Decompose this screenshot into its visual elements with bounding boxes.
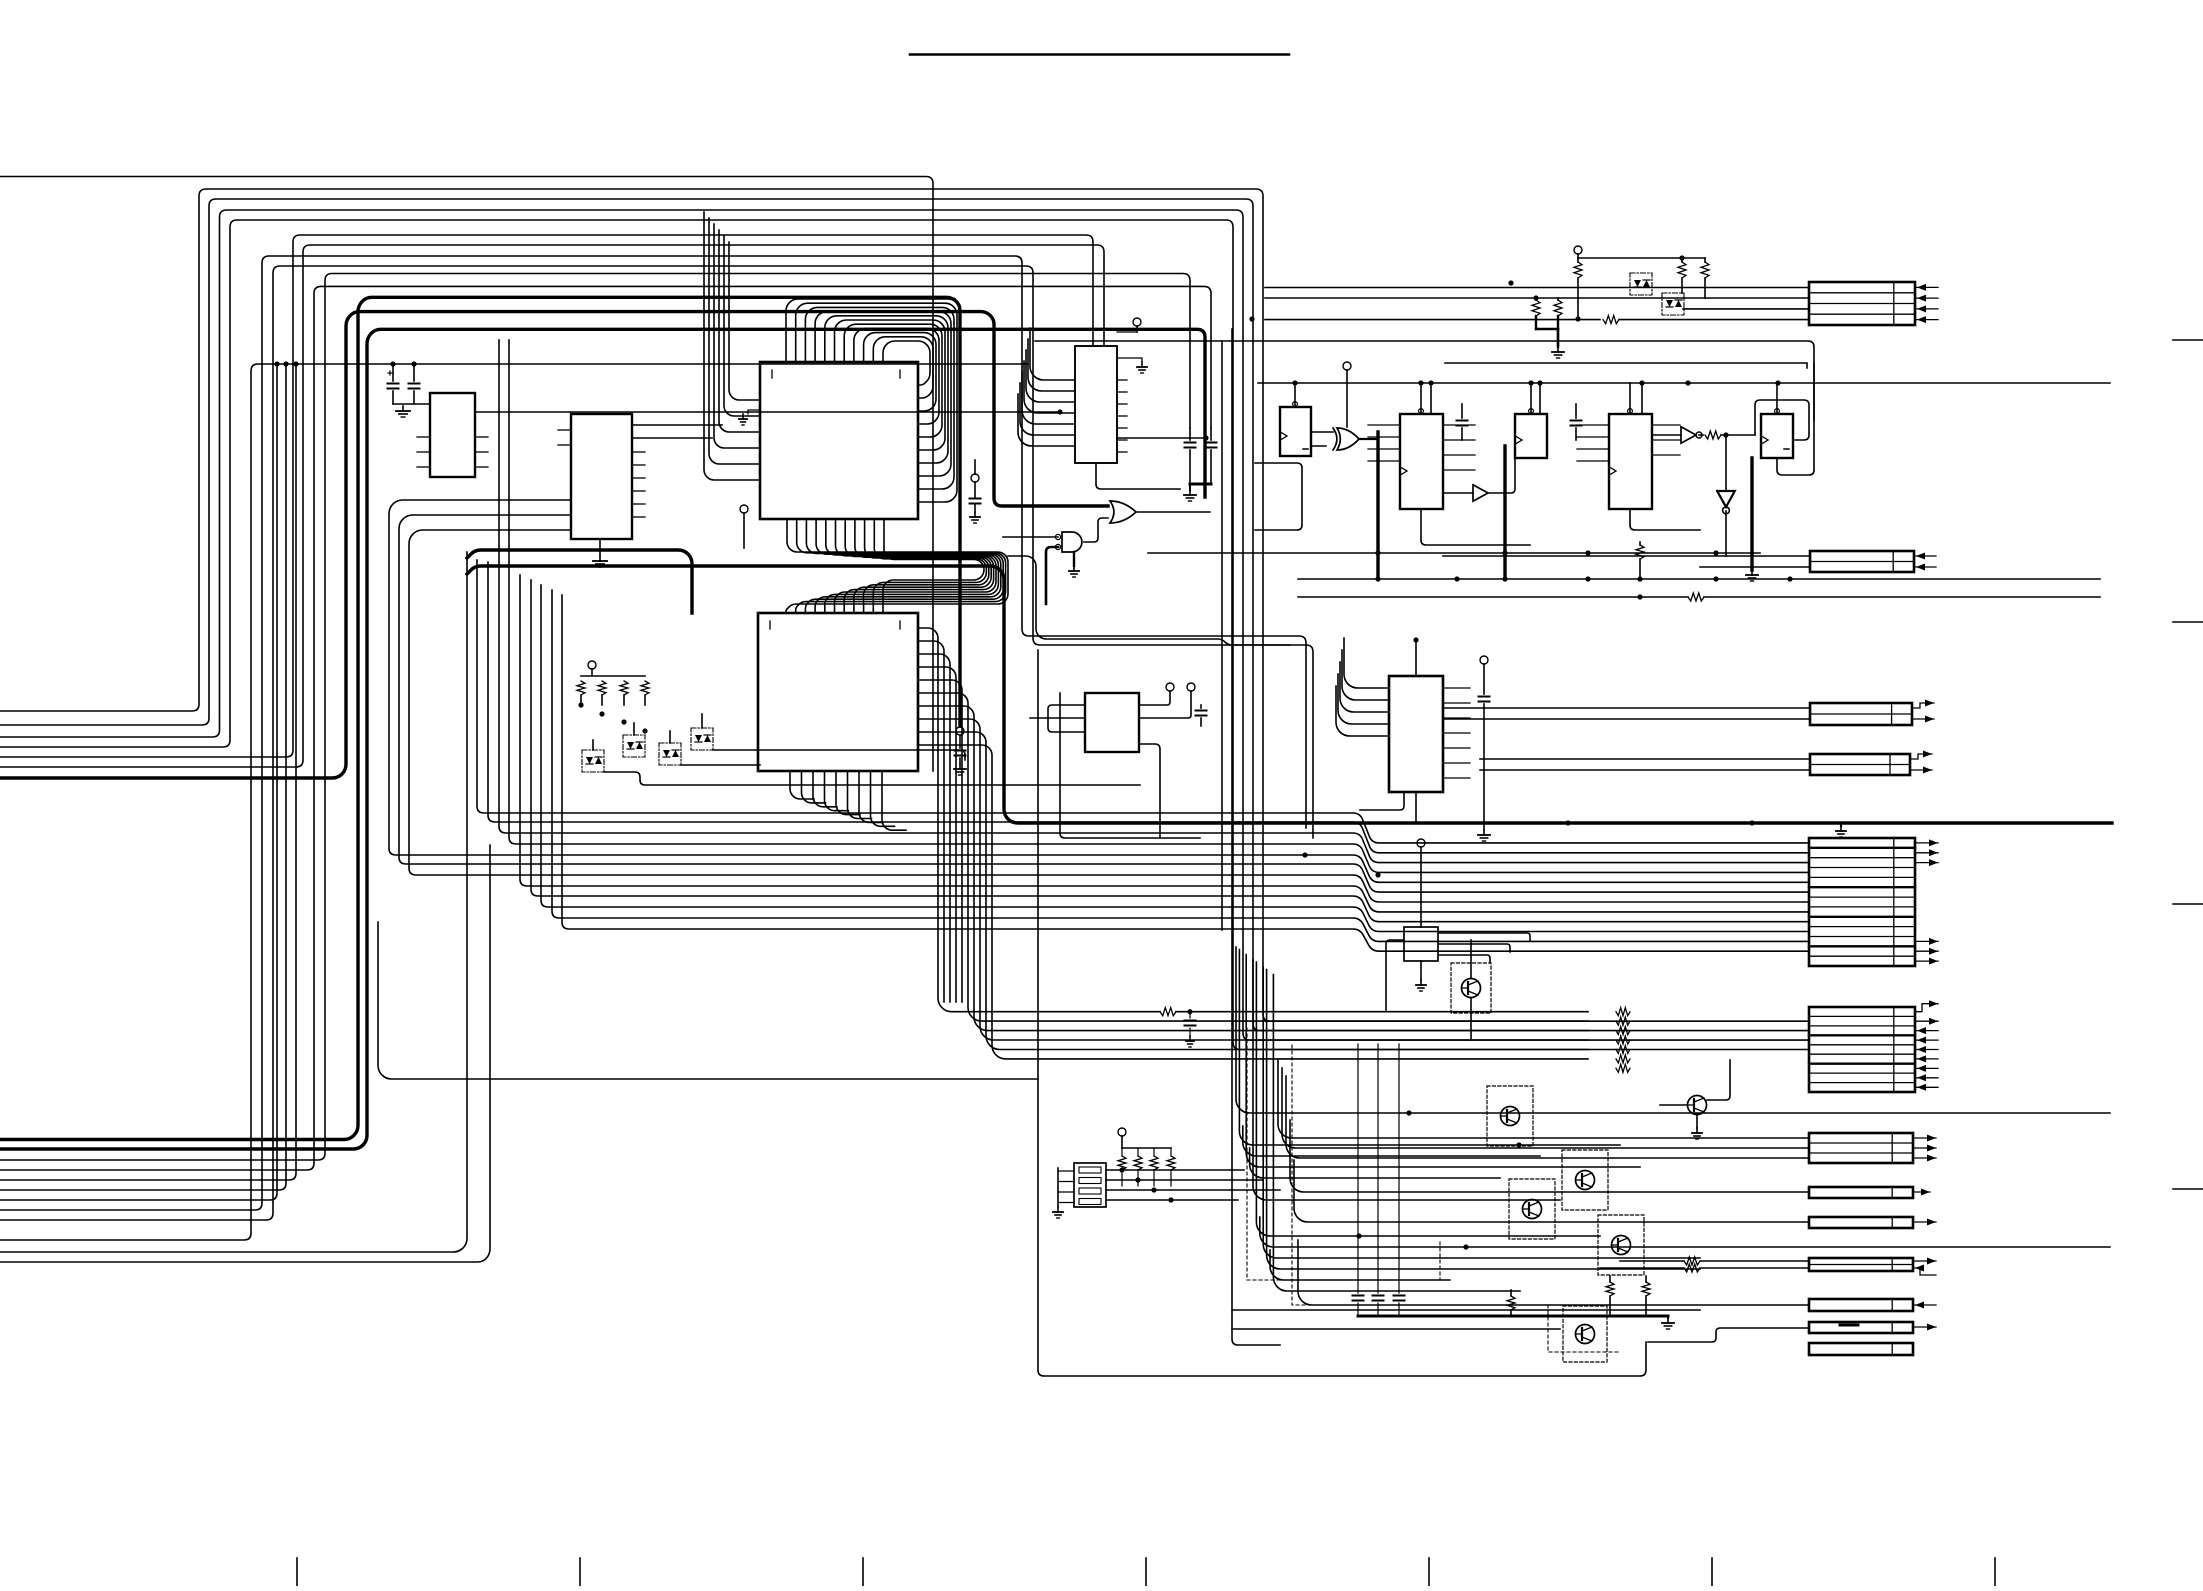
wire CN7 exits (1913, 1135, 1936, 1162)
wire rail-363 (1445, 363, 1807, 368)
ground C34 (1184, 484, 1196, 501)
wire bot rails (1236, 947, 2110, 1291)
wire rail-1329 (1232, 1328, 1560, 1330)
junction S7 (274, 361, 279, 366)
transistor Q23 (1598, 1215, 1644, 1275)
wire VD1222 (1221, 341, 1223, 930)
fold mark right 4 (2173, 1188, 2203, 1190)
capacitor C5 (954, 727, 966, 775)
wire VD1232 (1231, 329, 1233, 920)
wire CN2 feeds (1443, 556, 1810, 567)
capacitor C6 (1457, 404, 1468, 440)
capacitor C13 (1185, 1009, 1196, 1047)
wire U15 top (1775, 383, 1780, 414)
capacitor C9 (1478, 656, 1490, 841)
wire rail-530b (1148, 552, 1760, 554)
resistor R13 (1554, 298, 1562, 345)
wire U15 loop (1755, 400, 1809, 440)
wire band B1-12 (389, 340, 1809, 951)
capacitor C10-12 (1353, 1044, 1405, 1316)
junction R364-b (411, 361, 416, 366)
transistor Q10 (1630, 273, 1652, 295)
wire RN1 rail (581, 675, 645, 677)
connector CN5 (1809, 838, 1915, 966)
transistor Q21 (1562, 1150, 1608, 1210)
pullup U3bl (740, 505, 748, 548)
IC U10 (1400, 414, 1443, 509)
IC U17 (1085, 693, 1139, 752)
FF U12 (1515, 414, 1547, 458)
junction rails-bot (1356, 1110, 1521, 1249)
inverter U16 (1717, 435, 1735, 514)
junction S5 (293, 361, 298, 366)
junction rail-597 (1637, 594, 1642, 599)
wire bus stair S4 (0, 266, 1313, 1220)
wire U5 out2 (1096, 463, 1180, 489)
resistor R11 (1574, 262, 1582, 319)
wire U16 out (1725, 511, 1727, 556)
wire C12 tie (393, 403, 430, 405)
wire net-L1262 (0, 845, 490, 1262)
pullup XR (1343, 362, 1351, 427)
connector CN4 (1810, 754, 1910, 775)
wire RN3 rail (1122, 1147, 1171, 1149)
frame dotted1 (1247, 1028, 1440, 1280)
wire rail-579 (1298, 578, 2100, 580)
wire rail-341 (1035, 341, 1814, 420)
wire U2 out1 (632, 424, 722, 426)
gate U6 AND (1055, 518, 1108, 552)
wire U13 pins-l (1577, 425, 1609, 461)
wire U1 pins-r (475, 437, 488, 467)
wire bus nest L1 (0, 189, 1809, 1021)
wire CN3 exits (1912, 700, 1934, 723)
resistor R15 (1701, 258, 1709, 298)
wire bus stair S6 (0, 364, 286, 1190)
wire RN2 l (1058, 1171, 1074, 1203)
pullup U17a (1139, 683, 1174, 705)
wire U19 top (1417, 839, 1425, 927)
RN2 box (1074, 1163, 1106, 1207)
junction rail-530b (1375, 550, 1718, 555)
ground tie (1662, 1316, 1674, 1329)
wire U19 steps (1438, 933, 1530, 962)
fold mark right 1 (2173, 339, 2203, 341)
connector CN13 (1809, 1343, 1913, 1355)
ground C12 (396, 406, 410, 417)
junction rail-579 (1375, 576, 1792, 581)
wire bold frameA (467, 550, 692, 613)
fold mark right 3 (2173, 903, 2203, 905)
connector CN12 (1809, 1322, 1913, 1333)
resistor R21 (1606, 1276, 1614, 1316)
transistor Q1 (582, 740, 604, 772)
wire U15 out (1777, 363, 1814, 475)
ground RN2 (1053, 1168, 1063, 1218)
capacitor C5b (970, 460, 981, 523)
wire U19 gnd (1416, 961, 1426, 991)
ground U6 (1069, 552, 1079, 577)
wire TR rail283 (1265, 287, 1809, 289)
ground VB1752 (1746, 570, 1758, 581)
buffer U11 (1443, 458, 1515, 501)
connector CN6 (1809, 1007, 1915, 1092)
gate U9 XOR (1311, 428, 1359, 450)
U4 pin marks (770, 621, 900, 629)
connector CN2 (1810, 551, 1914, 572)
wire CN34 feeds (1443, 708, 1810, 770)
wire bus nest L4 (0, 220, 1809, 1050)
wire CN12 feed (1648, 1328, 1809, 1342)
transistor Q2 (623, 723, 645, 757)
junction H823-a (1565, 820, 1570, 825)
wire U1 out (475, 409, 1063, 414)
wire outline (1038, 650, 1646, 1376)
fold mark right 2 (2173, 621, 2203, 623)
wire CN5 exits (1915, 839, 1938, 964)
resistor RN1 (577, 681, 649, 705)
wire CN12 exit (1913, 1324, 1936, 1331)
connector CN3 (1810, 703, 1912, 725)
wire U8 top (1293, 383, 1298, 407)
bold VB1378 (1376, 432, 1379, 579)
bold VB1752 (1750, 458, 1753, 570)
junction U14o (1723, 432, 1728, 437)
resistor R16 (1705, 431, 1755, 439)
IC U13 (1609, 414, 1652, 509)
resistor R14 (1678, 258, 1686, 293)
pullup U5 (1117, 318, 1141, 332)
wire bold frameB (467, 566, 2112, 823)
connector CN8 (1809, 1187, 1913, 1198)
wire TR rail319 (1265, 316, 1809, 324)
wire net-A0 top (0, 177, 933, 772)
pullup RN3 (1118, 1128, 1126, 1148)
wire bus stair S7 (0, 364, 277, 1200)
IC U19 (1404, 927, 1438, 961)
ticks bottom (297, 1558, 1995, 1586)
FF U8 (1280, 407, 1311, 456)
wire U18 pins-r (1443, 688, 1470, 778)
wire CN11 feed (1298, 1240, 1809, 1305)
wire bold BW1 (0, 312, 1108, 778)
connector CN11 (1809, 1299, 1913, 1311)
transistor Q24 (1563, 1306, 1607, 1362)
resistor R22 (1642, 1276, 1650, 1316)
wire RN2 out (1106, 1170, 1280, 1200)
wire U18 feeder (1008, 556, 1290, 645)
wire CN8 exit (1913, 1189, 1930, 1196)
wire AND-in (1003, 537, 1058, 604)
wire U17 frame (1060, 693, 1200, 838)
wire rail-463 (1255, 463, 1302, 530)
junction S6 (283, 361, 288, 366)
capacitor C7 (1571, 404, 1582, 440)
pullup RN1 (588, 661, 596, 676)
transistor Q22 (1509, 1179, 1555, 1239)
wire C34 tie (1190, 483, 1211, 486)
wire Q26 link (1470, 940, 1472, 1040)
wire U18 pins-l (1336, 638, 1389, 736)
wire U2 pins-l (558, 430, 571, 445)
wire CN7 feeds (1278, 1060, 1809, 1158)
transistor Q3 (659, 731, 681, 765)
junction H823-b (1749, 820, 1754, 825)
wire TR rail308 (1683, 308, 1809, 310)
wire U9 out (1359, 438, 1376, 440)
wire U13 pins-r (1652, 425, 1680, 455)
wire rail-1310 (1232, 1309, 1700, 1311)
wire U12 top (1529, 383, 1540, 414)
wire CN9 feed (1294, 1160, 1809, 1222)
wire TR rail298 (1265, 297, 1809, 299)
junction RN1 (578, 702, 647, 733)
capacitor C1 (388, 364, 399, 404)
ground TR (1552, 347, 1564, 358)
wire U3 pins-bot ribbon (786, 519, 1008, 613)
wire U3 pins-top-right (786, 299, 960, 568)
bold VB1505 (1503, 446, 1506, 579)
IC U5 (1075, 346, 1117, 463)
wire U2 gnd (593, 539, 607, 567)
wire bus nest L2 (0, 199, 1809, 1031)
wire U17 l (1030, 705, 1085, 732)
wire CN4 exits (1910, 751, 1932, 774)
ground U3l (739, 410, 760, 425)
wire bold tie1316 (1358, 1315, 1668, 1318)
junction R364-a (390, 361, 395, 366)
wire net-R364 (0, 364, 1028, 1240)
junction rail-320 (1249, 316, 1297, 385)
IC U4 (758, 613, 918, 771)
frame dotted2 (1292, 1045, 1620, 1352)
connector CN10 (1809, 1258, 1913, 1271)
wire U10 pins-l (1368, 425, 1400, 461)
wire bus nest L5 (0, 235, 1093, 757)
wire bus stair S3 (0, 256, 1306, 1210)
transistor Q26 (1451, 963, 1491, 1013)
wire rail-597 (1298, 593, 2100, 601)
junction U5o (1203, 435, 1208, 440)
wire U5 pins-r (1117, 380, 1127, 452)
wire U3 pins-l (704, 212, 760, 480)
capacitor C2 (409, 364, 420, 404)
wire U13 bot (1630, 509, 1700, 530)
connector CN7 (1809, 1133, 1913, 1163)
resistor RN3 (1118, 1148, 1175, 1186)
IC U18 (1389, 676, 1443, 792)
wire U10 bot (1421, 509, 1530, 545)
wire U18 top (1413, 637, 1418, 676)
wire U2 pins-r (632, 452, 645, 517)
ground U5 (1117, 358, 1147, 373)
wire Q25 link (1660, 1060, 1730, 1105)
transistor Q20 (1487, 1086, 1533, 1146)
wire U2 out2 (632, 437, 712, 439)
wire net-V467 (0, 552, 467, 1252)
U3 pin1 mark (772, 370, 900, 378)
wire U10 pins-r (1443, 425, 1475, 470)
wire CN11 exit (1913, 1302, 1936, 1309)
IC U3 (760, 362, 918, 519)
gate U7 OR (1110, 501, 1210, 523)
wire CN6 exits (1915, 1000, 1938, 1091)
wire TR gndlink (1536, 329, 1558, 347)
wire U4 pins-r (918, 628, 1588, 1059)
capacitor C8 (1196, 705, 1207, 726)
junction TR (1508, 280, 1580, 321)
capacitor C3 (1185, 428, 1196, 484)
wire U10 top (1419, 383, 1431, 414)
wire U13 top (1628, 383, 1642, 414)
ground G823 (1836, 823, 1846, 837)
wire CN1 exits (1915, 284, 1938, 323)
wire bus stair S1 (0, 274, 1190, 1161)
capacitor C4 (1206, 428, 1217, 484)
wire TR vcc (1578, 257, 1705, 259)
resistor lower-band (1616, 1008, 1630, 1073)
wire rail-383 (1258, 382, 2110, 384)
wire CN2 exits (1914, 553, 1936, 571)
wire bus nest L3 (0, 210, 1809, 1040)
resistor R20 (1507, 1290, 1515, 1316)
wire net-H1079 (378, 922, 1038, 1079)
wire U5 pins-l (1018, 328, 1075, 446)
wire outline2 (1232, 920, 1280, 1345)
transistor Q25 (1688, 1096, 1707, 1140)
IC U2 (571, 414, 632, 539)
IC U1 (430, 393, 475, 477)
resistor R17 (1636, 542, 1644, 579)
transistor Q11 (1662, 293, 1684, 315)
junction RN3 (1119, 1167, 1173, 1202)
junction band (1302, 852, 1380, 877)
wire bus stair S2 (0, 286, 1211, 1170)
title underline (910, 53, 1289, 56)
connector CN9 (1809, 1217, 1913, 1228)
junction TRv (1679, 255, 1684, 260)
wire U1 pins-l (417, 437, 430, 467)
wire U18 bot (1360, 792, 1416, 823)
wire bus stair S5 (0, 364, 296, 1180)
wire CN9 exit (1913, 1219, 1936, 1226)
wire bus nest L6 (0, 245, 1104, 767)
wire bold BW2 (0, 297, 960, 1139)
wire bold BW3 (0, 329, 1205, 1149)
FF U15 (1761, 414, 1793, 458)
wire CN10 feeds (1600, 1257, 1809, 1272)
wire CN10 exits (1913, 1258, 1936, 1276)
pullup U17b (1139, 683, 1195, 718)
buffer U14 (1652, 427, 1703, 443)
wire U5 out1 (1117, 437, 1206, 439)
pullup VR1 (1574, 246, 1582, 262)
connector CN1 (1809, 282, 1915, 325)
junction rail-383 (1418, 380, 1780, 385)
wire U19 l (1386, 940, 1404, 1010)
resistor R12 (1532, 298, 1540, 329)
transistor Q4 (691, 714, 713, 750)
wire CN8 feed (1290, 1120, 1809, 1192)
wire U4 pins-bot (790, 771, 906, 830)
wire Q out (604, 750, 1140, 785)
